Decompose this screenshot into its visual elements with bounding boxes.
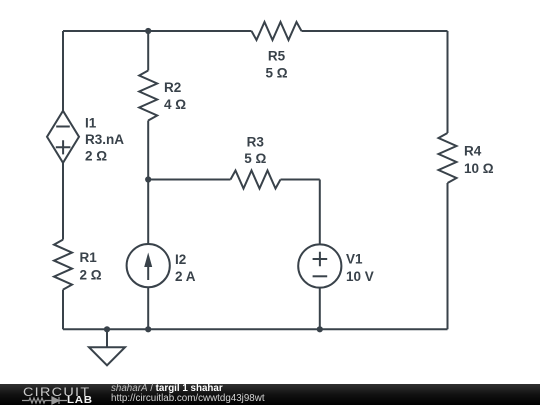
wire column2 upper [147, 31, 149, 71]
resistor R3 [231, 171, 281, 189]
wire top-left rail [63, 30, 252, 32]
resistor R2 [139, 71, 157, 121]
svg-text:10 Ω: 10 Ω [464, 161, 494, 176]
wire mid rail right [281, 179, 320, 181]
label V1 [346, 251, 374, 284]
current source I2 [127, 244, 170, 287]
label I1 [85, 116, 124, 164]
label R3 [244, 134, 266, 166]
svg-text:V1: V1 [346, 251, 363, 266]
resistor R5 [252, 22, 302, 40]
label I2 [175, 252, 196, 284]
voltage source V1 [298, 244, 341, 287]
svg-text:5 Ω: 5 Ω [244, 151, 266, 166]
resistor R1 [54, 240, 72, 290]
svg-text:R2: R2 [164, 80, 181, 95]
wire left rail middle [62, 163, 64, 240]
svg-text:R3: R3 [247, 134, 265, 149]
svg-text:R5: R5 [268, 49, 286, 64]
wire column2 middle [147, 121, 149, 245]
svg-text:10 V: 10 V [346, 269, 374, 284]
resistor R4 [439, 133, 457, 183]
wire bottom rail [63, 328, 448, 330]
svg-text:2 A: 2 A [175, 269, 196, 284]
ground [89, 329, 125, 365]
svg-text:2 Ω: 2 Ω [80, 267, 102, 282]
label R2 [164, 80, 186, 112]
label R5 [265, 49, 287, 81]
svg-text:2 Ω: 2 Ω [85, 148, 107, 163]
wire right rail upper [447, 31, 449, 133]
svg-text:I2: I2 [175, 252, 186, 267]
logo squiggle [22, 396, 68, 405]
node dot top [145, 28, 151, 34]
svg-text:I1: I1 [85, 116, 97, 131]
node dot mid [145, 176, 151, 182]
label R1 [80, 250, 102, 283]
wire mid rail left [148, 179, 230, 181]
wire column2 lower [147, 287, 149, 329]
node dot bottom V1 [317, 326, 323, 332]
wire V1 column upper [319, 180, 321, 245]
wire right rail lower [447, 183, 449, 329]
wire left rail upper [62, 31, 64, 111]
node dot ground [104, 326, 110, 332]
wire top-right rail [302, 30, 448, 32]
wire V1 column lower [319, 288, 321, 330]
svg-text:R4: R4 [464, 143, 482, 158]
svg-text:4 Ω: 4 Ω [164, 97, 186, 112]
label R4 [464, 143, 494, 176]
dependent source I1 [47, 111, 79, 163]
wire left rail lower [62, 290, 64, 330]
node dot bottom column2 [145, 326, 151, 332]
svg-text:5 Ω: 5 Ω [265, 65, 287, 80]
svg-text:R1: R1 [80, 250, 98, 265]
svg-text:R3.nA: R3.nA [85, 132, 124, 147]
